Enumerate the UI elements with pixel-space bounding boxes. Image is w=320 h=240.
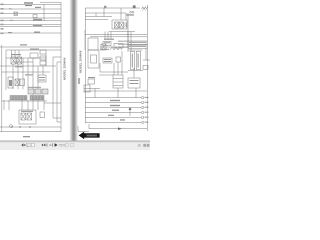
svg-text:75%: 75% — [59, 143, 66, 147]
svg-text:MODEL 2554HV: MODEL 2554HV — [62, 58, 66, 80]
svg-text:MODEL 2554HV: MODEL 2554HV — [79, 51, 83, 73]
